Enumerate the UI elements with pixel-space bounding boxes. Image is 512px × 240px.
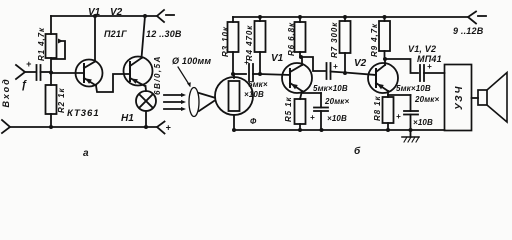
capacitor C input (36, 65, 38, 80)
capacitor 6mk (248, 64, 250, 81)
resistor R8 1k (387, 91, 389, 97)
resistor R2 1k (50, 73, 52, 85)
resistor R5 1k (300, 91, 302, 99)
converging rays (199, 93, 214, 98)
wire V2 collector to output cap (385, 59, 418, 73)
svg-text:20мк×: 20мк× (324, 97, 349, 106)
svg-text:КТ361: КТ361 (67, 108, 100, 119)
svg-text:12 ..30В: 12 ..30В (146, 29, 182, 39)
svg-text:×10В: ×10В (244, 90, 264, 99)
photoresistor F (233, 74, 235, 78)
wire base V1 (51, 72, 84, 74)
svg-text:5мк×10В: 5мк×10В (396, 84, 431, 93)
svg-text:Вход: Вход (1, 77, 11, 107)
svg-text:V2: V2 (354, 58, 367, 69)
svg-text:R5 1к: R5 1к (284, 97, 293, 122)
svg-text:б: б (354, 145, 361, 157)
capacitor 20mk stage2 (388, 94, 411, 96)
svg-text:R9 4,7к: R9 4,7к (370, 23, 379, 57)
speaker (472, 97, 479, 99)
wire bottom rail A (10, 126, 157, 128)
svg-text:+: + (244, 58, 249, 67)
svg-text:6В/0,5А: 6В/0,5А (153, 55, 162, 95)
resistor R1 4,7k (trimmer) (50, 16, 52, 34)
svg-text:+: + (166, 123, 172, 133)
capacitor 5mk stage1 (326, 63, 328, 79)
svg-text:Ø 100мм: Ø 100мм (172, 56, 211, 66)
svg-text:П21Г: П21Г (104, 29, 127, 39)
svg-text:а: а (83, 148, 89, 159)
terminal top-right A (157, 10, 164, 22)
svg-text:R4 470к: R4 470к (245, 25, 254, 61)
svg-text:20мк×: 20мк× (414, 95, 439, 104)
amplifier block UZCh (445, 65, 472, 131)
resistor R6 6,8k (298, 15, 302, 19)
wire top rail B (233, 16, 468, 18)
wire V1 emitter to V2 base (96, 74, 130, 92)
terminal bottom-right A (157, 122, 165, 134)
svg-text:R8 1к: R8 1к (373, 96, 382, 121)
svg-text:R6 6,8к: R6 6,8к (287, 22, 296, 56)
svg-text:R3 10к: R3 10к (221, 26, 230, 57)
capacitor 20mk stage1 (302, 92, 321, 94)
resistor R4 470k (258, 15, 262, 19)
wire bottom rail B (234, 129, 445, 131)
svg-text:Н1: Н1 (121, 113, 134, 124)
svg-text:УЗЧ: УЗЧ (454, 85, 465, 110)
svg-text:×10В: ×10В (413, 118, 433, 127)
svg-text:5мк×10В: 5мк×10В (313, 84, 348, 93)
node R1/R2/base (49, 71, 53, 75)
resistor R9 4,7k (383, 15, 387, 19)
light ray arrows (164, 94, 181, 96)
ground (410, 130, 412, 137)
svg-text:+: + (333, 62, 338, 71)
svg-text:МП41: МП41 (417, 54, 442, 64)
terminal top-right B (468, 12, 476, 24)
resistor R7 300k (343, 15, 347, 19)
svg-text:R1 4,7к: R1 4,7к (37, 27, 46, 61)
transistor V2 P217 (124, 57, 153, 86)
input terminal top (16, 65, 25, 79)
wire V1 collector to cap (301, 57, 325, 71)
svg-text:R2 1к: R2 1к (57, 88, 66, 113)
transistor V1 KT361 (76, 60, 103, 87)
lens (189, 88, 199, 117)
node wire to cap (233, 73, 246, 75)
svg-text:×10В: ×10В (327, 114, 347, 123)
svg-text:V2: V2 (110, 7, 123, 18)
svg-text:V1, V2: V1, V2 (408, 44, 436, 54)
resistor R3 10k (232, 17, 234, 22)
svg-text:ƒ: ƒ (21, 79, 27, 91)
svg-text:+: + (310, 113, 315, 122)
lamp H1 (136, 91, 156, 111)
svg-text:+: + (396, 112, 401, 121)
transistor V2 MP41 (368, 63, 398, 93)
svg-text:+: + (26, 59, 32, 69)
svg-text:R7 300к: R7 300к (330, 22, 339, 58)
svg-text:Ф: Ф (250, 117, 257, 126)
capacitor 5mk output (419, 65, 421, 81)
leader line (178, 67, 190, 86)
input terminal bottom (2, 120, 10, 133)
svg-text:V1: V1 (271, 53, 284, 64)
wiper of R1 (52, 41, 65, 59)
wire top rail A (51, 15, 157, 17)
transistor V1 MP41 (282, 63, 312, 93)
svg-text:9 ..12В: 9 ..12В (453, 26, 484, 36)
